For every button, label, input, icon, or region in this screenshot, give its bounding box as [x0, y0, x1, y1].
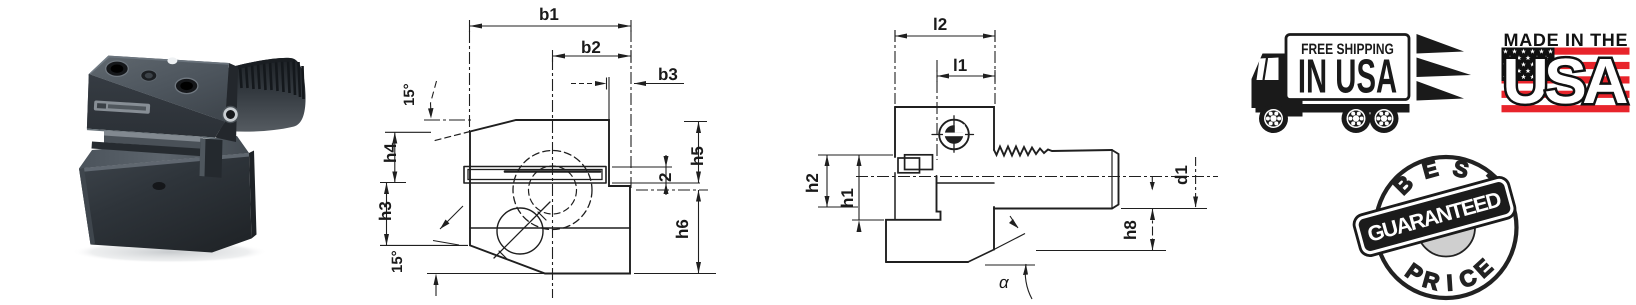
svg-text:IN USA: IN USA — [1298, 51, 1397, 104]
svg-text:h3: h3 — [376, 201, 395, 221]
top face back edge light — [108, 56, 229, 65]
svg-text:15°: 15° — [389, 250, 406, 273]
block top face — [89, 56, 229, 122]
extension b1 left — [469, 31, 471, 135]
top face holes — [106, 61, 129, 76]
body outline — [470, 120, 630, 274]
top extensions — [894, 30, 896, 104]
15 deg top leader — [431, 81, 437, 103]
alpha ref line — [985, 264, 1035, 266]
chassis — [1287, 100, 1303, 117]
l2 arrows — [895, 34, 907, 39]
top chamfer dashed extension — [433, 132, 470, 142]
extension right step — [630, 30, 632, 188]
right bottom extension — [634, 273, 716, 275]
b3 leader dashes — [571, 83, 596, 85]
svg-text:h5: h5 — [688, 146, 707, 166]
15deg arrows — [428, 108, 434, 119]
inner dashed circle — [529, 166, 577, 214]
h2 dim — [826, 155, 828, 207]
b2 dim line — [553, 55, 632, 57]
centerline — [856, 176, 1218, 178]
top face front chamfer highlight — [89, 74, 225, 123]
svg-text:h6: h6 — [673, 219, 692, 239]
svg-text:d1: d1 — [1172, 165, 1191, 185]
screw circle — [939, 120, 969, 150]
h6 arrows — [696, 190, 701, 202]
h1 arrows — [857, 155, 862, 166]
screw circle — [497, 208, 543, 254]
cargo box — [1286, 35, 1409, 100]
outer circle — [1376, 157, 1517, 298]
base front top highlight — [79, 153, 250, 172]
right centerline — [636, 189, 708, 191]
left top extension — [424, 119, 474, 121]
l1 dim line — [937, 75, 995, 77]
seat line — [937, 182, 995, 184]
top face left edge light — [89, 56, 110, 75]
b3 dim line — [634, 83, 684, 85]
h1 dim — [858, 155, 860, 220]
left chamfer-corner extension — [380, 244, 468, 246]
base left sliver — [79, 168, 95, 245]
shadow under base — [72, 241, 268, 263]
bottom extension — [427, 273, 545, 275]
cab — [1252, 54, 1287, 113]
big dashed circle — [513, 151, 592, 230]
block bottom edge highlight — [87, 129, 215, 139]
right slot extensions — [612, 167, 700, 183]
base right face — [249, 151, 257, 239]
h5 dim line — [698, 122, 700, 184]
base top line — [470, 227, 630, 229]
slot inner bar — [468, 170, 602, 180]
canton — [1502, 48, 1555, 82]
dim2 arrows — [664, 156, 669, 167]
h6 dim line — [698, 190, 700, 274]
l2 dim line — [895, 35, 995, 37]
screw axis diagonal — [494, 202, 550, 258]
svg-text:2: 2 — [656, 173, 675, 182]
b1 arrows — [470, 24, 483, 29]
shank dark top band — [228, 58, 294, 72]
svg-text:b2: b2 — [581, 38, 601, 57]
alpha arc arrowhead — [1023, 264, 1028, 275]
block right side face — [215, 63, 238, 142]
speed stripe 2 — [1417, 58, 1472, 78]
base top face — [79, 136, 249, 169]
dark lip — [92, 142, 215, 158]
h3 arrows — [384, 183, 389, 195]
block left edge light — [87, 74, 90, 129]
h4 dim line — [394, 132, 396, 182]
shank ribs — [240, 59, 304, 99]
left corner extension — [385, 131, 431, 133]
svg-text:15°: 15° — [401, 83, 418, 106]
stripes — [1502, 48, 1630, 113]
guaranteed ribbon — [1352, 175, 1517, 258]
h2 arrows — [825, 155, 830, 166]
alpha leader arrow — [1010, 216, 1018, 228]
b1 dim line — [470, 25, 632, 27]
screw inner disc — [945, 125, 964, 144]
block front face — [87, 74, 225, 138]
speed stripe 1 — [1417, 34, 1465, 54]
svg-text:l1: l1 — [953, 56, 967, 75]
base front face — [79, 153, 252, 253]
cab window — [1257, 58, 1279, 81]
slot box — [898, 158, 920, 173]
slot outer — [464, 167, 606, 184]
seat light strip — [104, 131, 203, 143]
label strip — [94, 100, 151, 113]
right top extension — [684, 121, 707, 123]
clamp tab — [200, 138, 223, 177]
wheels — [1259, 104, 1288, 133]
svg-text:USA: USA — [1503, 45, 1629, 117]
svg-text:h4: h4 — [381, 143, 400, 163]
h3 dim line — [386, 183, 388, 246]
svg-text:b1: b1 — [539, 5, 559, 24]
h4 arrows — [392, 132, 397, 143]
d1 dim — [1195, 157, 1197, 207]
seat mid band — [104, 136, 210, 150]
PRICE arc text — [1401, 254, 1498, 296]
shank cylinder — [215, 58, 306, 132]
h8 dim — [1152, 209, 1154, 251]
l1 arrows — [937, 74, 949, 79]
svg-text:h8: h8 — [1121, 220, 1140, 240]
svg-text:h1: h1 — [838, 188, 857, 208]
d1 left stem — [1151, 177, 1153, 190]
alpha leader arrowhead — [1009, 219, 1018, 228]
alpha slant extension — [994, 234, 1025, 250]
b3 arrow — [634, 81, 646, 86]
15 deg bottom leader — [440, 206, 463, 229]
alpha arc — [1025, 264, 1032, 299]
base top hole — [153, 182, 166, 190]
h8 arrows — [1150, 209, 1155, 221]
svg-text:α: α — [999, 273, 1010, 292]
svg-text:l2: l2 — [933, 15, 947, 34]
d1 arrows — [1193, 197, 1198, 208]
centerline vertical — [552, 58, 554, 298]
h5 arrows — [696, 122, 701, 134]
speed stripe 3 — [1417, 81, 1465, 101]
svg-text:b3: b3 — [658, 65, 678, 84]
BEST arc text — [1389, 155, 1502, 199]
body outline — [895, 107, 994, 150]
inner disc — [1417, 199, 1475, 257]
svg-text:h2: h2 — [803, 173, 822, 193]
left slot-bottom extension — [380, 182, 406, 184]
dim 2 line — [665, 155, 667, 195]
screw hole on right — [223, 107, 239, 123]
extension b3/right edge — [608, 77, 610, 122]
b2 arrows — [553, 54, 566, 59]
